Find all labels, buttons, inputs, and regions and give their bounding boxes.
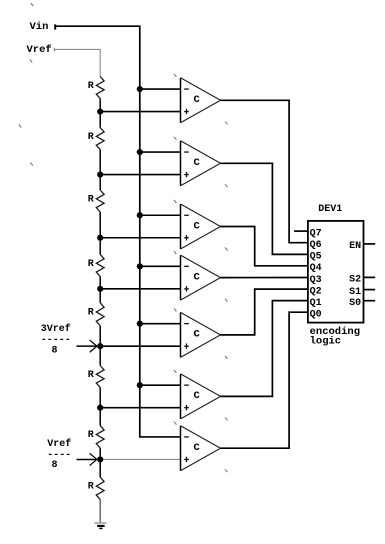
svg-text:-----: -----: [41, 335, 71, 346]
op-amp comparator C4: [181, 255, 221, 300]
svg-text:3Vref: 3Vref: [41, 323, 71, 335]
artifact tick: [174, 308, 176, 311]
artifact tick: [30, 60, 32, 63]
artifact tick: [31, 3, 33, 6]
op-amp comparator C6: [181, 374, 221, 419]
resistor R7: [96, 426, 104, 448]
svg-text:R: R: [88, 307, 94, 318]
node 3Vref/8 label: [41, 323, 71, 356]
wire ladder tap to C4 plus: [100, 288, 180, 290]
junction on Vin bus at C4: [137, 263, 143, 269]
svg-text:S0: S0: [349, 298, 361, 309]
svg-text:DEV1: DEV1: [318, 204, 342, 215]
node ladder tap 4: [97, 286, 103, 292]
svg-text:Q0: Q0: [310, 310, 322, 321]
svg-text:R: R: [88, 195, 94, 206]
resistor R5: [96, 303, 104, 326]
artifact tick: [174, 251, 176, 254]
svg-text:R: R: [88, 132, 94, 143]
svg-text:Q7: Q7: [310, 228, 322, 239]
node ladder tap 1: [97, 108, 103, 114]
junction on Vin bus at C3: [137, 212, 143, 218]
wire Q7 stub: [294, 230, 308, 232]
node Vref/8 label: [47, 438, 71, 471]
artifact tick: [225, 356, 227, 359]
op-amp comparator C3: [181, 204, 221, 249]
wire C1 output to encoder: [221, 100, 308, 242]
svg-text:S1: S1: [349, 287, 361, 298]
svg-text:R: R: [88, 370, 94, 381]
ground: [94, 522, 106, 524]
wire ladder segments: [99, 99, 101, 128]
junction on Vin bus at C5: [137, 321, 143, 327]
artifact tick: [19, 125, 21, 128]
resistor R2: [96, 128, 104, 150]
svg-text:C: C: [194, 94, 201, 106]
svg-text:R: R: [88, 482, 94, 493]
svg-text:Q5: Q5: [310, 252, 322, 263]
resistor R4: [96, 254, 104, 276]
svg-text:C: C: [194, 157, 201, 169]
svg-text:Q6: Q6: [310, 240, 322, 251]
svg-text:Vref: Vref: [47, 438, 71, 450]
wire Vin bus to C6 minus: [140, 384, 181, 386]
pin S1: [364, 289, 376, 291]
svg-text:C: C: [194, 442, 201, 454]
op-amp comparator C2: [181, 141, 221, 186]
node ladder tap 3: [97, 235, 103, 241]
resistor R8: [96, 477, 104, 500]
svg-text:R: R: [88, 81, 94, 92]
svg-text:Vref: Vref: [27, 44, 52, 56]
wire C3 output to encoder: [221, 227, 308, 266]
svg-text:R: R: [88, 259, 94, 270]
svg-text:R: R: [88, 430, 94, 441]
wire ladder tap to C5 plus: [100, 345, 180, 347]
op-amp comparator C7: [181, 426, 221, 471]
wire C4 output to encoder: [221, 277, 308, 279]
svg-text:logic: logic: [310, 336, 342, 348]
node ladder tap 6: [97, 405, 103, 411]
svg-text:C: C: [194, 329, 201, 341]
svg-text:C: C: [194, 271, 201, 283]
wire Vin bus to C2 minus: [140, 151, 181, 153]
pin S0: [364, 300, 376, 302]
junction on Vin bus at C1: [137, 86, 143, 92]
artifact tick: [225, 417, 227, 420]
wire Vref terminal tick: [53, 48, 55, 52]
svg-text:S2: S2: [349, 275, 361, 286]
wire ladder tap to C6 plus: [100, 407, 180, 409]
svg-text:Q1: Q1: [310, 298, 322, 309]
artifact tick: [225, 469, 227, 472]
artifact tick: [174, 74, 176, 77]
wire arrow into Vref/8 tap: [77, 453, 97, 465]
svg-text:C: C: [194, 390, 201, 402]
svg-text:Vin: Vin: [30, 21, 49, 33]
junction on Vin bus at C2: [137, 149, 143, 155]
pin S2: [364, 276, 376, 278]
artifact tick: [174, 422, 176, 425]
svg-text:Q3: Q3: [310, 275, 322, 286]
svg-text:8: 8: [51, 460, 57, 471]
wire C7 output to encoder: [221, 312, 308, 448]
wire ladder tap to C7 plus: [100, 458, 180, 460]
node ladder tap 2: [97, 171, 103, 177]
wire ladder bottom to ground: [99, 500, 101, 523]
op-amp comparator C1: [181, 78, 221, 123]
wire Vin bus to C4 minus: [140, 265, 181, 267]
resistor R1: [96, 77, 104, 99]
wire Vin: label to bus, down, to comparator C7 minus: [55, 26, 180, 437]
svg-text:C: C: [194, 220, 201, 232]
artifact tick: [174, 200, 176, 203]
artifact tick: [225, 299, 227, 302]
artifact tick: [225, 121, 227, 124]
svg-text:8: 8: [51, 346, 57, 357]
wire Vref: label to top of ladder: [54, 49, 100, 76]
svg-text:Q4: Q4: [310, 263, 322, 274]
artifact tick: [30, 163, 32, 166]
op-amp comparator C5: [181, 312, 221, 357]
artifact tick: [174, 370, 176, 373]
wire Vin bus to C3 minus: [140, 214, 181, 216]
wire ladder tap to C1 plus: [100, 111, 180, 113]
wire ladder tap to C3 plus: [100, 237, 180, 239]
wire C6 output to encoder: [221, 301, 308, 397]
wire ladder tap to C2 plus: [100, 174, 180, 176]
svg-text:----: ----: [47, 450, 71, 461]
wire Vin bus to C5 minus: [140, 323, 181, 325]
junction on Vin bus at C6: [137, 382, 143, 388]
resistor R6: [96, 366, 104, 388]
svg-text:Q2: Q2: [310, 286, 322, 297]
resistor R3: [96, 190, 104, 212]
pin EN: [364, 243, 376, 245]
artifact tick: [174, 137, 176, 140]
wire C5 output to encoder: [221, 289, 308, 335]
wire C2 output to encoder: [221, 163, 308, 254]
artifact tick: [225, 248, 227, 251]
wire Vin bus to C1 minus: [140, 88, 181, 90]
artifact tick: [225, 184, 227, 187]
encoding logic block DEV1: [308, 221, 364, 323]
node ladder tap 5: [97, 343, 103, 349]
node ladder tap 7: [97, 456, 103, 462]
wire arrow into 3Vref/8 tap: [77, 340, 97, 352]
wire Vin terminal tick: [54, 24, 56, 29]
svg-text:EN: EN: [349, 241, 361, 252]
